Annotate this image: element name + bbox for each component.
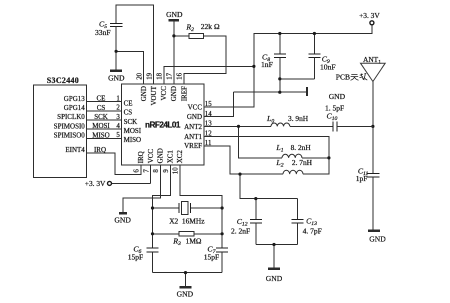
svg-text:S3C2440: S3C2440 (47, 76, 79, 85)
svg-text:CS: CS (124, 109, 133, 117)
svg-text:EINT4: EINT4 (65, 146, 85, 154)
svg-text:3: 3 (116, 114, 120, 121)
svg-text:5: 5 (116, 132, 120, 139)
svg-text:2: 2 (116, 105, 120, 112)
svg-text:15pF: 15pF (204, 252, 219, 261)
svg-text:SPIMISO0: SPIMISO0 (54, 132, 86, 140)
svg-text:8. 2nH: 8. 2nH (291, 143, 312, 152)
svg-text:11: 11 (205, 140, 212, 147)
svg-text:VOUT: VOUT (150, 85, 158, 105)
svg-text:VCC: VCC (147, 149, 155, 164)
svg-text:20: 20 (136, 72, 143, 79)
svg-text:14: 14 (205, 111, 212, 118)
svg-text:GND: GND (170, 86, 178, 101)
svg-text:SPIMOSI0: SPIMOSI0 (54, 122, 86, 130)
svg-text:XC1: XC1 (166, 150, 174, 164)
svg-text:MOSI: MOSI (92, 122, 110, 130)
svg-text:7: 7 (143, 169, 150, 173)
svg-text:ANT2: ANT2 (184, 123, 202, 131)
svg-text:3. 9nH: 3. 9nH (288, 114, 309, 123)
svg-text:XC2: XC2 (176, 150, 184, 164)
svg-text:8: 8 (153, 169, 160, 173)
svg-text:+3. 3V: +3. 3V (85, 179, 106, 188)
svg-text:18: 18 (157, 72, 164, 79)
svg-text:CE: CE (97, 95, 106, 103)
svg-text:10: 10 (173, 167, 180, 174)
svg-text:IREF: IREF (180, 86, 188, 101)
svg-text:X2 16MHz: X2 16MHz (169, 216, 205, 225)
svg-text:12: 12 (205, 131, 212, 138)
svg-text:VREF: VREF (184, 142, 202, 150)
svg-text:GND: GND (157, 148, 165, 163)
svg-text:1pF: 1pF (356, 174, 368, 183)
svg-text:9: 9 (163, 169, 170, 173)
svg-text:13: 13 (205, 121, 212, 128)
svg-text:4: 4 (116, 123, 120, 130)
svg-text:SCK: SCK (94, 113, 108, 121)
svg-text:15pF: 15pF (128, 252, 143, 261)
svg-text:MISO: MISO (124, 136, 142, 144)
svg-text:4. 7pF: 4. 7pF (303, 226, 322, 235)
svg-text:GND: GND (369, 235, 386, 244)
svg-text:GPG14: GPG14 (64, 104, 86, 112)
svg-text:2. 2nF: 2. 2nF (231, 226, 250, 235)
svg-text:ANT1: ANT1 (184, 133, 202, 141)
svg-text:1: 1 (116, 95, 120, 102)
svg-text:GND: GND (140, 86, 148, 101)
svg-text:SPICLK0: SPICLK0 (57, 113, 85, 121)
svg-text:GND: GND (114, 215, 131, 224)
svg-text:GND: GND (177, 289, 194, 298)
svg-text:33nF: 33nF (95, 28, 111, 37)
svg-text:15: 15 (205, 101, 212, 108)
svg-text:PCB: PCB (336, 73, 350, 82)
svg-text:GND: GND (108, 74, 125, 83)
svg-text:IRQ: IRQ (137, 151, 145, 163)
svg-text:16: 16 (177, 72, 184, 79)
svg-text:CS: CS (97, 104, 106, 112)
svg-text:VCC: VCC (188, 103, 203, 111)
svg-text:nRF24L01: nRF24L01 (145, 121, 181, 130)
svg-text:10nF: 10nF (320, 63, 336, 72)
svg-text:SCK: SCK (124, 118, 138, 126)
svg-text:17: 17 (167, 72, 174, 79)
svg-text:MOSI: MOSI (124, 127, 142, 135)
svg-text:MISO: MISO (92, 131, 110, 139)
svg-text:6: 6 (134, 169, 141, 173)
svg-text:IRQ: IRQ (94, 146, 106, 154)
svg-text:CE: CE (124, 99, 133, 107)
svg-text:GND: GND (166, 10, 183, 19)
svg-text:+3. 3V: +3. 3V (359, 11, 380, 20)
svg-text:1nF: 1nF (261, 60, 273, 69)
svg-text:GPG13: GPG13 (64, 95, 86, 103)
svg-text:GND: GND (266, 274, 283, 283)
svg-text:GND: GND (187, 113, 202, 121)
svg-text:GND: GND (329, 92, 346, 101)
svg-text:19: 19 (146, 72, 153, 79)
svg-text:1MΩ: 1MΩ (186, 237, 202, 246)
svg-text:VCC: VCC (160, 86, 168, 101)
svg-text:2. 7nH: 2. 7nH (292, 158, 313, 167)
svg-text:22k Ω: 22k Ω (201, 22, 220, 31)
